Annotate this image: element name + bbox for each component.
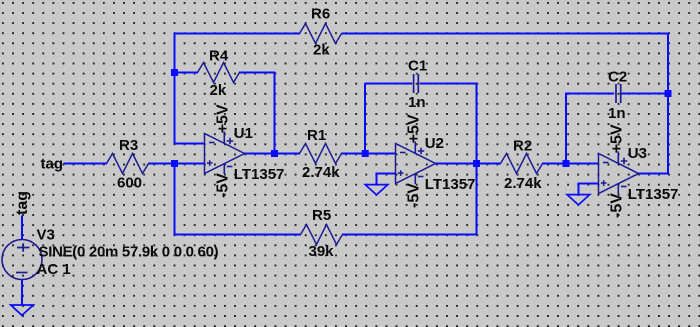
wire node A down to bottom feedback rail bbox=[174, 164, 176, 235]
op-amp U3 inverting input mark bbox=[603, 162, 609, 164]
wire U2 output through node to R2 bbox=[435, 163, 501, 165]
op-amp U1 V- minus mark bbox=[227, 166, 233, 168]
resistor R5 body bbox=[301, 225, 343, 245]
wire C2 right lead bbox=[622, 93, 669, 95]
wire C2 left vertical bbox=[565, 94, 567, 165]
svg-text:LT1357: LT1357 bbox=[234, 166, 285, 183]
capacitor C2 plates bbox=[616, 84, 621, 103]
ground at V3 bbox=[11, 305, 34, 315]
svg-text:1n: 1n bbox=[608, 105, 626, 122]
svg-text:U3: U3 bbox=[628, 145, 647, 162]
svg-text:2k: 2k bbox=[210, 82, 227, 99]
wire U3 ground hook bbox=[579, 184, 600, 196]
svg-text:-5V: -5V bbox=[406, 183, 423, 208]
op-amp U2 V+ plus mark bbox=[418, 148, 424, 154]
wire V3 bottom lead bbox=[21, 279, 23, 305]
svg-text:R6: R6 bbox=[311, 6, 330, 23]
junction U2 output / C1 / R5 / R2 bbox=[473, 160, 480, 167]
svg-text:+5V: +5V bbox=[609, 124, 626, 153]
resistor R2 body bbox=[501, 154, 543, 174]
op-amp U3 V+ plus mark bbox=[621, 158, 627, 164]
svg-text:tag: tag bbox=[41, 156, 64, 173]
svg-text:R5: R5 bbox=[312, 207, 331, 224]
op-amp U3 V- power pin bbox=[617, 183, 619, 194]
junction node A (R3/U1+/bottom rail) bbox=[171, 160, 178, 167]
wire right vertical from top rail to U3 output bbox=[667, 33, 669, 174]
wire bottom rail left of R5 bbox=[174, 234, 302, 236]
svg-text:U2: U2 bbox=[425, 135, 444, 152]
op-amp U2 triangle bbox=[396, 144, 436, 184]
voltage source V3 plus mark bbox=[17, 243, 30, 251]
svg-text:-5V: -5V bbox=[609, 193, 626, 218]
svg-text:+5V: +5V bbox=[215, 104, 232, 133]
wire bottom rail right of R5 bbox=[342, 234, 478, 236]
svg-text:2k: 2k bbox=[313, 42, 330, 59]
wire C2 left lead bbox=[565, 93, 614, 95]
voltage source V3 circle bbox=[2, 240, 42, 280]
svg-text:SINE(0 20m 57.9k 0 0 0 60): SINE(0 20m 57.9k 0 0 0 60) bbox=[39, 244, 219, 261]
wire C1 left lead bbox=[365, 83, 413, 85]
svg-text:U1: U1 bbox=[234, 125, 253, 142]
wire C1 right vertical down to U2 output node bbox=[476, 83, 478, 164]
op-amp U3 non-inverting input mark bbox=[601, 180, 607, 186]
wire U1 output to R1 bbox=[244, 153, 300, 155]
svg-text:V3: V3 bbox=[37, 227, 55, 244]
junction C2 / U3 output rail bbox=[665, 90, 672, 97]
op-amp U2 non-inverting input mark bbox=[398, 170, 404, 176]
ground at U3 non-inverting input bbox=[567, 195, 590, 205]
junction U1 output / R4 bbox=[271, 150, 278, 157]
wire U2 ground hook bbox=[377, 174, 397, 186]
wire V3 top lead to tag label bbox=[21, 216, 23, 241]
svg-text:LT1357: LT1357 bbox=[425, 176, 476, 193]
ground at U2 non-inverting input bbox=[365, 185, 388, 195]
junction R4/left vertical bbox=[171, 69, 178, 76]
op-amp U2 inverting input mark bbox=[400, 152, 406, 154]
op-amp U1 V- power pin bbox=[223, 163, 225, 174]
wire R4 left lead to left vertical bbox=[174, 72, 199, 74]
wire C1 right lead bbox=[420, 83, 478, 85]
svg-text:+5V: +5V bbox=[406, 114, 423, 143]
op-amp U2 V- minus mark bbox=[418, 176, 424, 178]
op-amp U2 V+ power pin bbox=[414, 142, 416, 154]
svg-text:600: 600 bbox=[117, 175, 142, 192]
op-amp U1 non-inverting input mark bbox=[207, 160, 213, 166]
op-amp U3 triangle bbox=[599, 154, 639, 194]
svg-text:R1: R1 bbox=[307, 127, 326, 144]
svg-text:C1: C1 bbox=[408, 58, 427, 75]
wire R3 to node at U1 non-inverting input bbox=[148, 163, 205, 165]
wire R4 right lead bbox=[239, 72, 275, 74]
capacitor C1 plates bbox=[414, 74, 419, 93]
svg-text:AC 1: AC 1 bbox=[37, 261, 71, 278]
op-amp U3 V- minus mark bbox=[621, 186, 627, 188]
op-amp U1 V+ power pin bbox=[223, 132, 225, 144]
wire R4 down to U1 output node bbox=[274, 72, 276, 154]
op-amp U1 triangle bbox=[205, 134, 245, 174]
op-amp U3 V+ power pin bbox=[617, 152, 619, 164]
svg-text:R4: R4 bbox=[209, 48, 229, 65]
wire top rail right of R6 bbox=[342, 33, 669, 35]
svg-text:2.74k: 2.74k bbox=[302, 164, 340, 181]
wire from tag label to R3 bbox=[64, 163, 108, 165]
wire R2 to U3 inverting input bbox=[542, 163, 599, 165]
svg-text:1n: 1n bbox=[408, 94, 426, 111]
resistor R3 body bbox=[107, 154, 149, 174]
svg-text:R2: R2 bbox=[513, 138, 532, 155]
svg-text:C2: C2 bbox=[608, 69, 627, 86]
wire top feedback rail (R6 net) bbox=[175, 33, 301, 35]
svg-text:39k: 39k bbox=[309, 243, 335, 260]
op-amp U2 V- power pin bbox=[414, 173, 416, 184]
resistor R1 body bbox=[300, 144, 342, 164]
wire into U1 inverting input bbox=[175, 143, 206, 145]
junction R2 / C2 / U3 inverting input bbox=[563, 160, 570, 167]
op-amp U1 V+ plus mark bbox=[227, 138, 233, 144]
resistor R6 body bbox=[300, 24, 342, 44]
svg-text:2.74k: 2.74k bbox=[504, 175, 542, 192]
junction R1 / C1 / U2 inverting input bbox=[362, 150, 369, 157]
wire left vertical from top rail down to U1 inverting input bbox=[174, 33, 176, 144]
wire up from bottom rail to U2 output node bbox=[476, 164, 478, 236]
svg-text:-5V: -5V bbox=[215, 173, 232, 198]
resistor R4 body bbox=[198, 63, 240, 83]
svg-text:LT1357: LT1357 bbox=[628, 186, 679, 203]
svg-text:R3: R3 bbox=[119, 137, 138, 154]
voltage source V3 minus mark bbox=[16, 272, 28, 274]
svg-text:tag: tag bbox=[14, 191, 31, 215]
op-amp U1 inverting input mark bbox=[209, 142, 215, 144]
wire C1 left vertical bbox=[364, 84, 366, 155]
wire R1 to U2 inverting input bbox=[341, 153, 396, 155]
wire U3 output to right vertical bbox=[638, 173, 669, 175]
